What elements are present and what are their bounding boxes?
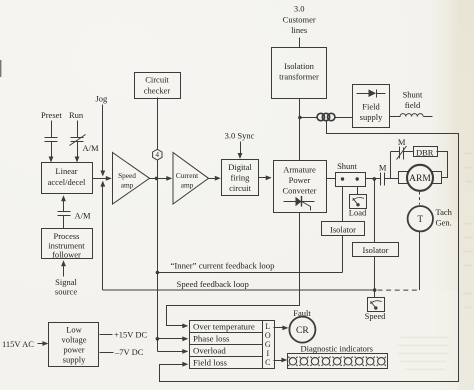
svg-text:transformer: transformer	[279, 72, 319, 82]
svg-text:Preset: Preset	[41, 110, 62, 120]
motor ARM with brushes	[399, 165, 442, 191]
box Armature Power Converter with SCR	[274, 161, 327, 213]
meter Speed	[368, 298, 385, 312]
wire current amp to firing circuit	[209, 176, 221, 181]
svg-text:T: T	[418, 214, 424, 224]
wire shunt to M contact, node	[366, 177, 381, 181]
svg-text:Field: Field	[362, 102, 380, 112]
svg-text:amp: amp	[181, 180, 194, 189]
svg-text:field: field	[405, 100, 421, 110]
svg-text:A/M: A/M	[75, 211, 92, 221]
svg-text:4: 4	[156, 151, 160, 159]
svg-text:–7V DC: –7V DC	[114, 347, 144, 357]
svg-text:circuit: circuit	[229, 183, 251, 193]
svg-text:O: O	[265, 331, 271, 340]
wire shunt right terminal down to load meter	[357, 187, 359, 195]
svg-text:ARM: ARM	[409, 174, 431, 184]
wire field loss sensing loop	[160, 121, 459, 382]
inductor shunt field coil	[390, 114, 433, 117]
svg-text:“Inner” current feedback loop: “Inner” current feedback loop	[171, 260, 275, 270]
meter Load	[350, 195, 367, 209]
svg-text:Fault: Fault	[293, 308, 311, 318]
svg-text:Isolator: Isolator	[330, 224, 356, 234]
svg-text:Converter: Converter	[283, 186, 317, 196]
wire inner current feedback riser / fault bus	[156, 179, 160, 352]
svg-text:Customer: Customer	[283, 15, 316, 25]
shunt resistor box	[336, 173, 366, 187]
svg-text:Circuit: Circuit	[145, 75, 169, 85]
svg-text:Digital: Digital	[228, 162, 252, 172]
box Process instrument follower	[42, 229, 93, 259]
wire Jog line	[100, 105, 105, 177]
wire DBR to ARM right	[437, 152, 448, 178]
svg-text:accel/decel: accel/decel	[48, 177, 86, 187]
box Isolation transformer	[272, 48, 327, 99]
svg-text:Process: Process	[54, 231, 80, 241]
svg-text:Signal: Signal	[55, 277, 77, 287]
inductor field tap coil	[300, 113, 353, 120]
wire overload feed	[158, 349, 189, 354]
svg-text:Phase loss: Phase loss	[193, 334, 230, 344]
svg-text:voltage: voltage	[61, 335, 86, 345]
box Field supply with diode	[353, 85, 390, 128]
wire speed feedback riser (up arrow into summing point)	[100, 181, 105, 290]
svg-text:L: L	[265, 322, 270, 331]
svg-text:115V AC: 115V AC	[2, 339, 34, 349]
wire customer lines drop	[299, 38, 301, 48]
op-amp speed amp	[113, 153, 150, 205]
svg-text:+15V DC: +15V DC	[114, 329, 148, 339]
box Low voltage power supply	[49, 323, 99, 367]
svg-text:M: M	[379, 163, 387, 173]
switch Preset	[45, 121, 58, 163]
svg-text:Diagnostic indicators: Diagnostic indicators	[301, 344, 373, 354]
wire isolator2 down, speed node	[373, 257, 377, 298]
wire speed feedback loop	[103, 289, 375, 291]
svg-text:Armature: Armature	[283, 165, 316, 175]
wire armature node down to isolator 2	[374, 179, 376, 243]
wire accel/decel output to speed amp	[93, 176, 112, 181]
faint ghost print on right page margin	[464, 153, 473, 309]
svg-text:Linear: Linear	[55, 166, 77, 176]
wire logic to CR	[274, 326, 289, 331]
wire DBR branch	[391, 152, 400, 179]
svg-text:Current: Current	[176, 171, 198, 180]
wire dashed ARM to tach	[419, 192, 421, 205]
svg-text:firing: firing	[231, 173, 251, 183]
svg-text:C: C	[265, 358, 270, 367]
box diagnostic indicator lamps	[288, 354, 388, 369]
svg-text:Gen.: Gen.	[436, 218, 452, 228]
svg-text:follower: follower	[52, 250, 81, 260]
svg-text:DBR: DBR	[416, 147, 434, 157]
svg-text:amp: amp	[121, 180, 134, 189]
box Digital firing circuit	[222, 160, 259, 196]
wire inner current feedback loop	[158, 272, 343, 274]
wire -7V DC stub	[100, 352, 114, 354]
switch Run (with A/M slash)	[70, 121, 86, 163]
contact M (DBR, normally closed)	[397, 146, 414, 160]
svg-text:source: source	[55, 287, 77, 297]
svg-text:power: power	[63, 345, 84, 355]
svg-text:Shunt: Shunt	[403, 90, 423, 100]
svg-text:M: M	[398, 137, 406, 147]
svg-text:Low: Low	[66, 325, 82, 335]
svg-text:3.0 Sync: 3.0 Sync	[225, 131, 255, 141]
svg-text:Speed feedback loop: Speed feedback loop	[177, 279, 249, 289]
svg-text:Over temperature: Over temperature	[193, 322, 255, 332]
svg-text:Overload: Overload	[193, 346, 226, 356]
op-amp current amp	[173, 153, 209, 205]
svg-text:Isolator: Isolator	[363, 245, 389, 255]
svg-text:Isolation: Isolation	[284, 61, 314, 71]
wire +15V DC stub	[100, 334, 113, 336]
wire signal source arrow	[61, 260, 66, 276]
tach generator T	[408, 206, 433, 231]
svg-text:Shunt: Shunt	[337, 161, 357, 171]
svg-text:lines: lines	[291, 25, 307, 35]
wire checker line with hexagon 4	[153, 98, 162, 179]
svg-text:Power: Power	[289, 175, 311, 185]
svg-text:G: G	[265, 340, 271, 349]
wire tach down to speed feedback	[378, 232, 420, 291]
resistor DBR box	[414, 147, 438, 157]
switch A/M (auto/manual contact)	[58, 195, 71, 228]
wire logic to indicators	[274, 358, 288, 363]
box Isolator 2	[353, 243, 399, 257]
svg-text:CR: CR	[296, 326, 309, 336]
wire 3.0 Sync arrow	[238, 142, 243, 160]
svg-text:supply: supply	[360, 112, 383, 122]
svg-text:3.0: 3.0	[294, 4, 305, 14]
svg-text:I: I	[266, 349, 269, 358]
wire phase loss feed	[158, 336, 189, 341]
wire transformer down bus	[298, 99, 302, 161]
wire shunt left terminal down to isolator	[342, 187, 344, 222]
wire converter to shunt	[327, 178, 336, 180]
svg-text:supply: supply	[63, 355, 86, 365]
svg-text:checker: checker	[144, 86, 171, 96]
svg-text:Tach: Tach	[436, 207, 453, 217]
wire isolator1 down to inner loop	[342, 236, 344, 273]
wire firing to converter	[259, 175, 272, 180]
wire over temperature sense from converter	[167, 213, 300, 329]
svg-text:Run: Run	[69, 110, 84, 120]
box fault rows with LOGIC column	[190, 321, 275, 369]
svg-text:Speed: Speed	[118, 171, 136, 180]
box Circuit checker	[135, 73, 181, 99]
svg-text:Jog: Jog	[96, 94, 109, 104]
svg-text:Speed: Speed	[365, 311, 387, 321]
wire speed amp output to junction	[150, 178, 168, 180]
relay CR	[289, 317, 315, 343]
svg-text:Load: Load	[349, 208, 367, 218]
box Isolator 1	[322, 222, 365, 236]
box Linear accel/decel	[42, 163, 93, 194]
svg-text:A/M: A/M	[83, 143, 100, 153]
contact M (armature)	[381, 173, 399, 186]
wire 115V AC input	[38, 341, 49, 346]
svg-text:Field loss: Field loss	[193, 358, 228, 368]
